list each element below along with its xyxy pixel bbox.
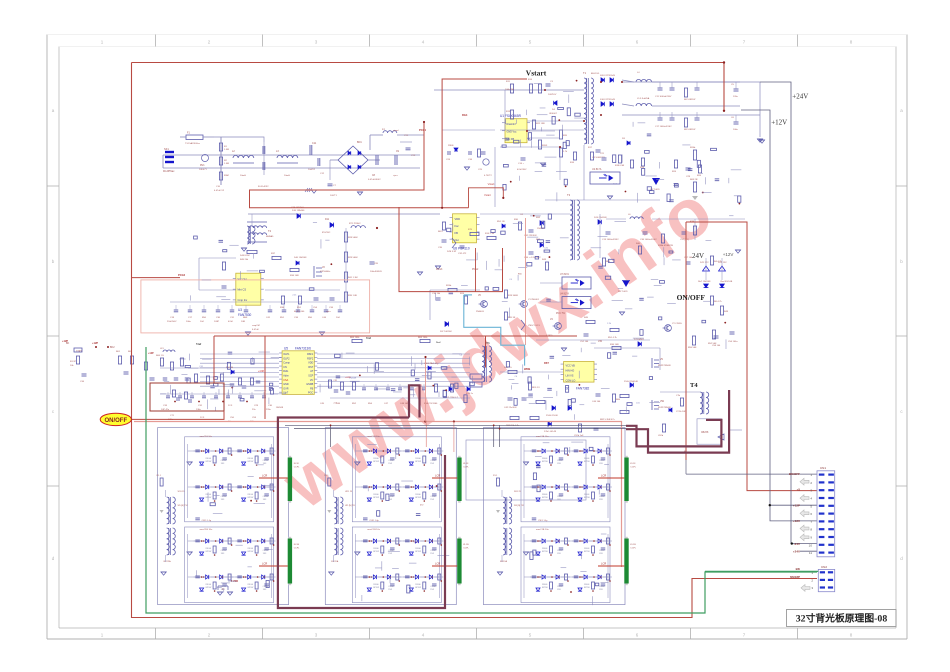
svg-text:D7b LL4148: D7b LL4148 xyxy=(544,431,557,433)
svg-text:FDPF7N50R: FDPF7N50R xyxy=(658,365,671,367)
svg-text:FAN7313/6: FAN7313/6 xyxy=(295,347,311,351)
svg-text:R8 51R/1W: R8 51R/1W xyxy=(684,129,696,131)
svg-text:C8GE: C8GE xyxy=(599,586,605,588)
svg-text:-24V: -24V xyxy=(794,542,800,546)
svg-text:D9 TL431M: D9 TL431M xyxy=(440,331,452,333)
svg-text:RV1: RV1 xyxy=(200,164,205,167)
svg-text:DV06 DV08: DV06 DV08 xyxy=(546,415,558,417)
svg-text:Y2 C2655: Y2 C2655 xyxy=(672,323,683,325)
svg-text:RSF1: RSF1 xyxy=(307,353,314,356)
svg-text:BP9W: BP9W xyxy=(542,461,548,463)
svg-text:R19 300R: R19 300R xyxy=(508,295,518,297)
svg-text:C8GE: C8GE xyxy=(263,496,269,498)
svg-text:OVR: OVR xyxy=(283,387,288,390)
svg-text:BP9W: BP9W xyxy=(584,461,590,463)
svg-text:V1 2N4401: V1 2N4401 xyxy=(528,299,540,301)
svg-text:R6 51R/1W: R6 51R/1W xyxy=(684,99,696,101)
svg-text:220n: 220n xyxy=(266,409,272,411)
svg-text:C36 10k: C36 10k xyxy=(432,293,441,295)
svg-text:R8GE: R8GE xyxy=(542,494,548,496)
svg-text:YC2b 10P: YC2b 10P xyxy=(676,411,687,413)
svg-text:C52 [P1]: C52 [P1] xyxy=(680,239,689,241)
svg-text:R8GE: R8GE xyxy=(415,494,421,496)
svg-text:+24V: +24V xyxy=(792,93,808,101)
svg-text:L5 3.3uH/5A: L5 3.3uH/5A xyxy=(637,97,650,100)
svg-text:S20 FYPF2045: S20 FYPF2045 xyxy=(600,75,616,77)
svg-text:+24V: +24V xyxy=(793,549,800,553)
svg-text:R8GE: R8GE xyxy=(206,494,212,496)
svg-text:C8GE: C8GE xyxy=(388,586,394,588)
svg-text:KL1B: KL1B xyxy=(463,544,469,546)
svg-text:BP9W: BP9W xyxy=(248,461,254,463)
svg-text:FAN7382: FAN7382 xyxy=(576,387,590,391)
svg-text:DZ1 27V: DZ1 27V xyxy=(700,262,709,264)
svg-text:R8GE: R8GE xyxy=(584,458,590,460)
svg-text:C54 100u: C54 100u xyxy=(728,341,738,343)
svg-text:V02b: V02b xyxy=(658,435,664,437)
svg-text:Db7 1N4148: Db7 1N4148 xyxy=(698,281,711,283)
svg-text:EEL19-1: EEL19-1 xyxy=(591,73,600,75)
svg-text:W11 29: W11 29 xyxy=(345,491,353,493)
svg-text:amsC1B 10u: amsC1B 10u xyxy=(200,529,213,531)
svg-text:UF4007: UF4007 xyxy=(549,113,558,115)
svg-text:BP9W: BP9W xyxy=(373,497,379,499)
svg-text:C44 104: C44 104 xyxy=(592,401,601,403)
svg-text:C8GE: C8GE xyxy=(263,550,269,552)
svg-text:R.47uF/X2: R.47uF/X2 xyxy=(258,186,269,188)
svg-text:Comp: Comp xyxy=(283,362,290,365)
svg-text:BP9W: BP9W xyxy=(373,587,379,589)
svg-text:R8GE: R8GE xyxy=(415,458,421,460)
svg-text:R22 13R: R22 13R xyxy=(536,123,545,125)
svg-text:R24b: R24b xyxy=(690,147,696,149)
svg-text:KL1B: KL1B xyxy=(294,544,300,546)
svg-text:D7 FMW1: D7 FMW1 xyxy=(634,339,645,341)
svg-text:FB: FB xyxy=(455,231,459,235)
svg-text:C8GE: C8GE xyxy=(557,496,563,498)
svg-text:R8GE: R8GE xyxy=(248,548,254,550)
svg-text:C58 104: C58 104 xyxy=(712,345,721,347)
svg-text:CSA: CSA xyxy=(283,379,288,382)
svg-text:OLP2: OLP2 xyxy=(283,357,290,360)
svg-text:4.7K/T2: 4.7K/T2 xyxy=(484,175,492,177)
svg-text:stand: stand xyxy=(393,129,399,132)
svg-text:Mnt CS: Mnt CS xyxy=(238,288,247,292)
svg-text:BP9W: BP9W xyxy=(584,551,590,553)
svg-text:CB2X8: CB2X8 xyxy=(701,432,709,434)
svg-text:BP9W: BP9W xyxy=(415,551,421,553)
svg-text:C8GE: C8GE xyxy=(599,496,605,498)
svg-text:BP9W: BP9W xyxy=(415,587,421,589)
svg-text:RX22A: RX22A xyxy=(331,560,338,563)
svg-text:W5 [N] T52: W5 [N] T52 xyxy=(514,505,525,507)
svg-text:VloT: VloT xyxy=(283,392,288,395)
svg-text:4k 32+100: 4k 32+100 xyxy=(294,311,305,313)
svg-text:BP9W: BP9W xyxy=(206,497,212,499)
svg-text:R8GE: R8GE xyxy=(206,548,212,550)
svg-text:R45 20k: R45 20k xyxy=(240,259,249,261)
svg-text:R8GE: R8GE xyxy=(206,584,212,586)
svg-text:R63 2R: R63 2R xyxy=(690,179,698,181)
svg-text:1.5M: 1.5M xyxy=(224,149,229,151)
svg-text:C8GE: C8GE xyxy=(557,460,563,462)
svg-text:C48 102: C48 102 xyxy=(400,403,409,405)
svg-text:amsC1B 10u: amsC1B 10u xyxy=(536,529,549,531)
svg-text:+12P: +12P xyxy=(148,352,154,355)
svg-text:T3.15A/250Vac: T3.15A/250Vac xyxy=(185,142,201,145)
svg-text:24V: 24V xyxy=(692,252,704,260)
svg-text:C8GE: C8GE xyxy=(430,586,436,588)
svg-text:R8GE: R8GE xyxy=(415,584,421,586)
svg-text:VC: VC xyxy=(310,379,314,382)
svg-text:C8GE: C8GE xyxy=(221,550,227,552)
svg-text:32寸背光板原理图-08: 32寸背光板原理图-08 xyxy=(796,612,888,625)
svg-text:amsC1B 10u: amsC1B 10u xyxy=(367,529,380,531)
svg-text:LCR: LCR xyxy=(435,474,440,478)
svg-text:+12P: +12P xyxy=(793,503,800,507)
svg-text:10R: 10R xyxy=(241,321,245,323)
svg-text:cmpCM: cmpCM xyxy=(252,325,260,327)
svg-text:BP9W: BP9W xyxy=(415,497,421,499)
svg-text:C5F1 1.4p: C5F1 1.4p xyxy=(202,520,212,522)
svg-text:90-265Vac: 90-265Vac xyxy=(163,170,175,173)
svg-text:R8GE: R8GE xyxy=(373,494,379,496)
svg-text:+12V: +12V xyxy=(771,119,787,127)
svg-text:100uF/450V: 100uF/450V xyxy=(370,271,382,273)
svg-text:47uF/35V: 47uF/35V xyxy=(517,169,527,171)
svg-text:U4 817A: U4 817A xyxy=(560,293,569,296)
svg-text:D8 TL431: D8 TL431 xyxy=(618,291,628,293)
svg-text:U2 817A: U2 817A xyxy=(592,168,602,171)
svg-text:Vstart: Vstart xyxy=(488,182,495,186)
svg-text:Vstart: Vstart xyxy=(526,69,547,78)
svg-text:120u: 120u xyxy=(733,96,739,98)
svg-text:104/X2: 104/X2 xyxy=(308,169,316,171)
svg-text:VCC VB: VCC VB xyxy=(566,365,576,368)
svg-text:R55 56K: R55 56K xyxy=(688,347,697,349)
svg-text:102/1KV: 102/1KV xyxy=(548,94,557,96)
svg-text:C8GE: C8GE xyxy=(557,550,563,552)
svg-text:C11 1000uF/35V: C11 1000uF/35V xyxy=(655,96,672,98)
svg-text:C8GE: C8GE xyxy=(263,460,269,462)
svg-text:C5F1 1.4p: C5F1 1.4p xyxy=(369,520,379,522)
svg-text:1N4148: 1N4148 xyxy=(349,378,357,380)
svg-text:R66 1%: R66 1% xyxy=(156,355,164,357)
svg-text:Vref: Vref xyxy=(196,343,201,346)
svg-text:6N/18P: 6N/18P xyxy=(790,575,800,579)
svg-text:1N4148: 1N4148 xyxy=(276,407,284,409)
svg-text:R8GE: R8GE xyxy=(248,494,254,496)
svg-text:C42 22u/50V: C42 22u/50V xyxy=(504,407,517,409)
svg-text:V9b: V9b xyxy=(660,401,665,403)
svg-text:+12V: +12V xyxy=(793,519,800,523)
svg-text:CCFL: CCFL xyxy=(294,467,300,469)
svg-text:RM9A5: RM9A5 xyxy=(266,235,274,238)
svg-text:R8GE: R8GE xyxy=(584,494,590,496)
svg-text:C52 104: C52 104 xyxy=(580,341,589,343)
svg-text:R8GE: R8GE xyxy=(248,584,254,586)
svg-text:0.47uF/400V: 0.47uF/400V xyxy=(368,179,381,181)
svg-text:R52 56K: R52 56K xyxy=(708,343,717,345)
svg-text:+4.98: +4.98 xyxy=(258,371,265,373)
svg-text:KL1F: KL1F xyxy=(294,463,300,465)
svg-text:ON/OFF: ON/OFF xyxy=(677,293,706,302)
svg-text:VDD: VDD xyxy=(308,362,313,365)
svg-text:FB: FB xyxy=(310,387,313,390)
svg-text:W11 29: W11 29 xyxy=(178,491,186,493)
svg-text:R6.5: R6.5 xyxy=(438,231,443,233)
svg-text:amsC18 10u: amsC18 10u xyxy=(200,436,213,438)
svg-text:P6KE: P6KE xyxy=(448,145,454,147)
svg-text:+12P: +12P xyxy=(92,341,98,345)
svg-text:103P: 103P xyxy=(214,321,220,323)
svg-text:BP9W: BP9W xyxy=(206,587,212,589)
svg-text:R58 C52 R60: R58 C52 R60 xyxy=(424,403,438,405)
svg-text:BYV26C: BYV26C xyxy=(322,232,331,234)
svg-text:V901 PA.1.05: V901 PA.1.05 xyxy=(424,362,438,365)
svg-text:HIN HO: HIN HO xyxy=(566,370,575,373)
svg-text:SF1: SF1 xyxy=(164,147,169,151)
svg-text:R1.1P: R1.1P xyxy=(70,361,77,363)
svg-text:R8GE: R8GE xyxy=(248,458,254,460)
svg-text:ON/OFF: ON/OFF xyxy=(104,418,127,424)
svg-text:KL1B: KL1B xyxy=(630,544,636,546)
svg-text:W11 29: W11 29 xyxy=(514,491,522,493)
svg-text:V3b: V3b xyxy=(598,341,603,343)
svg-text:R8GE: R8GE xyxy=(373,548,379,550)
svg-text:KL1F: KL1F xyxy=(630,463,636,465)
svg-text:RST: RST xyxy=(544,362,549,365)
svg-text:R41 1.1M: R41 1.1M xyxy=(348,277,358,279)
svg-text:CN: CN xyxy=(283,366,287,369)
svg-text:BP9W: BP9W xyxy=(542,497,548,499)
svg-text:C5F1 1.4p: C5F1 1.4p xyxy=(538,520,548,522)
svg-text:Rdln: Rdln xyxy=(283,370,289,373)
svg-text:RX22A: RX22A xyxy=(500,560,507,563)
svg-text:R3M: R3M xyxy=(224,175,229,177)
svg-text:C8GE: C8GE xyxy=(430,550,436,552)
svg-text:amsC18 10u: amsC18 10u xyxy=(367,436,380,438)
svg-text:C8GE: C8GE xyxy=(388,460,394,462)
svg-text:R18 0.5R: R18 0.5R xyxy=(615,165,625,167)
svg-text:BP9W: BP9W xyxy=(206,551,212,553)
svg-text:R24b: R24b xyxy=(446,285,452,287)
svg-text:+5: +5 xyxy=(797,488,801,492)
svg-text:CN1: CN1 xyxy=(820,466,826,470)
svg-text:11: 11 xyxy=(809,551,812,555)
svg-text:DZ5 13V: DZ5 13V xyxy=(718,262,727,264)
svg-text:Cmp Inv: Cmp Inv xyxy=(238,298,248,302)
svg-text:C8GE: C8GE xyxy=(430,460,436,462)
svg-text:S16 FYPF1045: S16 FYPF1045 xyxy=(600,99,616,101)
svg-text:LCR: LCR xyxy=(262,562,267,566)
svg-text:BP9W: BP9W xyxy=(206,461,212,463)
svg-text:100u: 100u xyxy=(186,321,192,323)
svg-text:DV04 1N4148: DV04 1N4148 xyxy=(624,381,639,383)
svg-text:Vcc Out: Vcc Out xyxy=(238,277,248,281)
svg-text:100u: 100u xyxy=(733,129,739,131)
svg-text:R35 1.8K: R35 1.8K xyxy=(348,295,358,297)
svg-text:C11: C11 xyxy=(312,142,317,145)
svg-text:Out: Out xyxy=(455,238,459,242)
svg-text:47uF: 47uF xyxy=(228,321,234,323)
svg-text:R8GE: R8GE xyxy=(584,584,590,586)
svg-text:W5 [N] T52: W5 [N] T52 xyxy=(178,505,189,507)
svg-text:K2PH404c: K2PH404c xyxy=(320,271,331,273)
svg-text:BP9W: BP9W xyxy=(248,497,254,499)
svg-text:R6 4.7k: R6 4.7k xyxy=(714,301,722,303)
svg-text:CCFL: CCFL xyxy=(463,548,469,550)
svg-text:RT1 P20HC: RT1 P20HC xyxy=(349,223,361,225)
svg-text:BP9W: BP9W xyxy=(584,497,590,499)
svg-text:BD1: BD1 xyxy=(357,141,362,144)
svg-text:V5DZ 13.1V: V5DZ 13.1V xyxy=(528,325,540,327)
svg-text:BK: BK xyxy=(66,342,70,345)
svg-text:R28 560K: R28 560K xyxy=(348,237,358,239)
svg-text:R64 100k: R64 100k xyxy=(350,337,360,339)
svg-text:BP9W: BP9W xyxy=(373,551,379,553)
svg-text:R29 560K: R29 560K xyxy=(348,257,358,259)
svg-text:PCG1: PCG1 xyxy=(419,128,427,132)
svg-text:BP9W: BP9W xyxy=(373,461,379,463)
svg-text:1.5M: 1.5M xyxy=(224,163,229,165)
svg-text:R8GE: R8GE xyxy=(542,548,548,550)
svg-text:C8GE: C8GE xyxy=(221,496,227,498)
svg-text:GND: GND xyxy=(283,383,289,386)
svg-text:PCG2: PCG2 xyxy=(178,273,186,277)
svg-text:R8GE: R8GE xyxy=(373,458,379,460)
svg-text:U1 FSQ0565R: U1 FSQ0565R xyxy=(500,114,522,118)
svg-text:R64 100k: R64 100k xyxy=(418,337,428,339)
svg-text:CN2: CN2 xyxy=(821,565,827,569)
svg-text:BP9W: BP9W xyxy=(248,551,254,553)
svg-text:BP9W: BP9W xyxy=(542,587,548,589)
svg-text:CCFL: CCFL xyxy=(630,548,636,550)
svg-text:R51 4.7k: R51 4.7k xyxy=(608,337,618,339)
svg-text:10mH: 10mH xyxy=(284,175,290,177)
svg-text:RST: RST xyxy=(308,366,313,369)
svg-text:RX22A: RX22A xyxy=(164,560,171,563)
svg-text:Adim: Adim xyxy=(283,375,288,378)
svg-text:DZ6 3.3P: DZ6 3.3P xyxy=(447,251,457,253)
svg-text:VDD: VDD xyxy=(233,580,238,583)
svg-text:D43 K20C: D43 K20C xyxy=(240,255,251,257)
svg-text:LCR: LCR xyxy=(435,562,440,566)
svg-text:D10 1N5406: D10 1N5406 xyxy=(292,210,305,212)
svg-text:R51 1N: R51 1N xyxy=(497,221,505,223)
svg-text:REF: REF xyxy=(243,317,248,319)
svg-text:D24 CS4148: D24 CS4148 xyxy=(594,217,607,219)
svg-text:C8GE: C8GE xyxy=(599,550,605,552)
svg-text:Vstart: Vstart xyxy=(484,193,491,197)
svg-text:GND Vcc: GND Vcc xyxy=(507,131,518,134)
svg-text:U7 817A: U7 817A xyxy=(560,273,569,276)
svg-text:C17 1000uF/16V: C17 1000uF/16V xyxy=(655,126,672,128)
svg-text:C14 +: C14 + xyxy=(518,163,525,165)
svg-text:COM LO: COM LO xyxy=(566,380,576,383)
svg-text:WDB: WDB xyxy=(524,367,530,371)
svg-text:100k/1W: 100k/1W xyxy=(505,89,515,91)
svg-text:Fsc: Fsc xyxy=(455,224,460,228)
svg-text:RSF2: RSF2 xyxy=(307,357,314,360)
svg-text:10: 10 xyxy=(809,543,813,547)
svg-text:PGC: PGC xyxy=(308,392,313,395)
svg-text:R8GE: R8GE xyxy=(415,548,421,550)
svg-text:22uF/50V: 22uF/50V xyxy=(167,321,177,323)
svg-text:PCC 7%: PCC 7% xyxy=(556,313,565,315)
svg-text:RD5 13: RD5 13 xyxy=(532,387,540,389)
svg-text:U5: U5 xyxy=(284,347,288,351)
svg-text:R34 10R: R34 10R xyxy=(290,275,299,277)
svg-text:BP9W: BP9W xyxy=(584,587,590,589)
svg-text:4.47uF X2: 4.47uF X2 xyxy=(214,190,225,192)
svg-text:C32 472: C32 472 xyxy=(458,253,467,255)
svg-text:U3: U3 xyxy=(238,308,242,312)
svg-text:Drain/Inf: Drain/Inf xyxy=(507,123,516,126)
svg-text:Vref: Vref xyxy=(436,341,441,344)
svg-text:Cbn RS2.6B: Cbn RS2.6B xyxy=(720,281,733,283)
svg-text:R82 5.35R E7+: R82 5.35R E7+ xyxy=(600,419,616,421)
svg-text:CCFL: CCFL xyxy=(294,548,300,550)
svg-text:C8GE: C8GE xyxy=(221,460,227,462)
svg-text:C13 1000uF/35V: C13 1000uF/35V xyxy=(602,239,619,241)
svg-text:LCR: LCR xyxy=(262,474,267,478)
svg-text:C8GE: C8GE xyxy=(557,586,563,588)
svg-text:LIN VS: LIN VS xyxy=(566,375,574,378)
svg-text:U8 PSR110: U8 PSR110 xyxy=(453,247,470,251)
svg-text:BK/OFF: BK/OFF xyxy=(789,472,800,476)
svg-text:10D471: 10D471 xyxy=(199,169,207,171)
svg-text:VDD: VDD xyxy=(455,217,461,221)
svg-text:SCP: SCP xyxy=(308,375,313,378)
svg-text:C8GE: C8GE xyxy=(599,460,605,462)
svg-text:amsC18 10u: amsC18 10u xyxy=(536,436,549,438)
svg-text:R8GE: R8GE xyxy=(206,458,212,460)
svg-text:BP9W: BP9W xyxy=(415,461,421,463)
svg-text:R8GE: R8GE xyxy=(584,548,590,550)
svg-text:10mH: 10mH xyxy=(240,175,246,177)
svg-text:C36 1000uF/50V: C36 1000uF/50V xyxy=(640,239,657,241)
svg-text:R8GE: R8GE xyxy=(542,458,548,460)
svg-text:BP9W: BP9W xyxy=(542,551,548,553)
svg-text:BK2: BK2 xyxy=(110,346,115,349)
svg-text:D40 1N4148: D40 1N4148 xyxy=(294,257,307,259)
svg-text:LCR: LCR xyxy=(601,562,606,566)
svg-text:C8GE: C8GE xyxy=(430,496,436,498)
svg-text:OLP1: OLP1 xyxy=(283,353,290,356)
svg-text:BP9W: BP9W xyxy=(248,587,254,589)
svg-text:R39b 470R/2W: R39b 470R/2W xyxy=(658,245,674,247)
svg-text:C32 225/50V: C32 225/50V xyxy=(524,235,537,237)
svg-text:T3: T3 xyxy=(486,341,490,345)
svg-text:R8GE: R8GE xyxy=(542,584,548,586)
svg-text:6.47uF: 6.47uF xyxy=(252,329,259,331)
svg-text:R14 2.7R: R14 2.7R xyxy=(485,233,495,235)
svg-text:2N4403: 2N4403 xyxy=(476,311,484,313)
svg-text:R8GE: R8GE xyxy=(373,584,379,586)
svg-text:KL1F: KL1F xyxy=(463,463,469,465)
svg-text:Vref: Vref xyxy=(366,337,371,340)
svg-text:R36 10R: R36 10R xyxy=(610,344,619,346)
svg-text:W5 [N] T52: W5 [N] T52 xyxy=(345,505,356,507)
svg-text:GNDB: GNDB xyxy=(306,383,313,386)
svg-text:LCR: LCR xyxy=(601,474,606,478)
svg-text:102/T1: 102/T1 xyxy=(330,195,338,197)
svg-text:CCFL: CCFL xyxy=(463,467,469,469)
svg-text:RG4: RG4 xyxy=(462,113,468,117)
svg-text:PCG3: PCG3 xyxy=(436,269,443,271)
svg-text:CCFL: CCFL xyxy=(630,467,636,469)
